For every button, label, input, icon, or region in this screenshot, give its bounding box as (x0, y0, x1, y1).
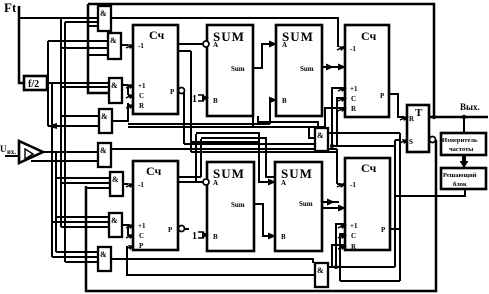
wire D5 input 2 (31, 160, 98, 162)
and-gate D6 (110, 172, 123, 196)
svg-text:B: B (282, 97, 287, 105)
svg-text:P: P (381, 226, 386, 234)
svg-text:U: U (0, 144, 7, 154)
wire SUM4 to CT4 line 2 (322, 207, 339, 209)
svg-text:P: P (170, 88, 175, 96)
wire CT3 P output stub (184, 228, 189, 230)
wire D4 input 2 (48, 125, 99, 127)
wire CT2 +1 feed from gate cluster (332, 88, 345, 146)
SUM3 A inversion circle (203, 179, 209, 185)
pin arrow CT4 R (338, 245, 346, 249)
junction dot D10 (334, 265, 338, 269)
svg-text:Сч: Сч (146, 164, 162, 178)
wire CT1 P net down (183, 92, 185, 144)
SUM1 A inversion circle (203, 41, 209, 47)
wire D8 input 1 (56, 251, 98, 253)
pin arrow CT1 C (126, 94, 134, 98)
wire middle long line y127 (128, 126, 325, 128)
wire band line y142 to CT2 R (191, 141, 259, 143)
wire Ft vertical to f/2 (19, 6, 24, 83)
svg-text:+1: +1 (138, 222, 146, 230)
wire D7 input 3 (61, 226, 109, 228)
wire D9 out to S stub (395, 139, 401, 141)
svg-text:Sum: Sum (231, 201, 245, 209)
wire bus V52 (51, 82, 53, 257)
counter CT1 (133, 25, 178, 114)
svg-text:Р: Р (168, 226, 173, 234)
wire D10 output (328, 266, 395, 268)
pin arrow CT3 -1 (126, 183, 134, 187)
wire bus V61 (60, 18, 62, 227)
pin arrow CT4 +1 (338, 224, 346, 228)
svg-text:-1: -1 (138, 42, 144, 50)
svg-text:Измеритель: Измеритель (442, 137, 478, 144)
wire D4 input 1 (61, 115, 99, 117)
wire CT2 P to T R (389, 94, 404, 117)
wire f/2 output to gate D3 (47, 82, 109, 84)
pin arrow CT1 R (126, 104, 134, 108)
wire right net V395 (394, 140, 396, 267)
svg-text:C: C (139, 232, 144, 240)
wire gate D9 left jog (309, 127, 316, 138)
pin arrow CT3 +1 (126, 224, 134, 228)
wire decision output (395, 189, 465, 196)
wire under SUM1 to gate D9 top entry (258, 116, 318, 127)
counter CT3 (133, 161, 178, 250)
wire SUM4 A feed staircase 2 (201, 138, 276, 177)
and-gate D4 (99, 109, 112, 133)
wire band line y147 to gate D9 (184, 143, 316, 145)
svg-text:Сч: Сч (361, 29, 377, 43)
wire D7 input 1 (56, 216, 109, 218)
svg-text:C: C (139, 92, 144, 100)
svg-text:блок: блок (453, 181, 467, 188)
svg-text:T: T (415, 107, 423, 119)
wire bus V56 (55, 152, 57, 252)
and-gate D8 (98, 247, 111, 271)
wire T Q output (429, 116, 488, 119)
wire stub up to CT3 R (126, 246, 128, 259)
adder SUM4 (275, 162, 322, 251)
svg-text:-1: -1 (138, 181, 144, 189)
wire D1 input 2 (65, 21, 98, 23)
svg-text:-1: -1 (350, 181, 356, 189)
adder SUM2 (276, 25, 322, 116)
and-gate D3 (109, 78, 122, 103)
CT3 P output circle (179, 226, 185, 232)
counter CT4 (345, 158, 390, 250)
adder SUM3 (207, 162, 254, 251)
svg-text:B: B (213, 97, 218, 105)
wire D2 input 1 (48, 40, 108, 42)
svg-text:&: & (112, 175, 119, 184)
pin arrow CT2 C (338, 97, 346, 101)
wire CT1 output to SUM1 A (178, 43, 203, 45)
wire D7 output branch to CT3 plus1 and C (122, 225, 129, 235)
svg-text:S: S (409, 138, 413, 146)
amplifier (Schmitt trigger) (19, 141, 43, 163)
wire SUM4 A feed staircase 1 (196, 133, 269, 182)
svg-text:&: & (101, 112, 108, 121)
wire D8 input 2 (52, 256, 98, 258)
wire CT4 R feed (332, 245, 345, 267)
wire CT4 C feed (340, 234, 345, 281)
and-gate D5 (98, 143, 111, 167)
svg-text:Sum: Sum (300, 65, 314, 73)
wire D6 input 2 (61, 182, 110, 184)
svg-text:вх.: вх. (7, 148, 16, 156)
svg-text:P: P (380, 92, 385, 100)
svg-text:Вых.: Вых. (460, 102, 480, 112)
wire input to amplifier (5, 155, 19, 157)
wire down to frequency meter (463, 117, 465, 132)
and-gate D1 (98, 6, 111, 31)
T inverted output circle (430, 137, 436, 143)
svg-text:&: & (100, 250, 107, 259)
wire D6 input 1 (56, 177, 110, 179)
svg-text:1: 1 (192, 231, 197, 242)
svg-text:&: & (317, 131, 324, 140)
wire band line y151 to CT4 minus1 (191, 151, 337, 153)
pin arrow CT1 +1 (126, 84, 134, 88)
svg-text:-1: -1 (350, 45, 356, 53)
wire middle long line y124 to SUM2 B (128, 123, 270, 125)
divider f/2 (24, 76, 47, 90)
svg-text:&: & (100, 146, 107, 155)
pin arrow CT2 -1 (337, 46, 345, 50)
wire D7 input 2 (52, 221, 109, 223)
wire T inverted output to feedback vertical (435, 140, 437, 141)
wire SUM2 Sum to CT2 (322, 66, 339, 68)
wire CT4 +1 feed (336, 224, 345, 267)
svg-text:A: A (213, 41, 218, 49)
wire SUM3 Sum to SUM4 B (254, 204, 269, 236)
svg-text:Sum: Sum (231, 65, 245, 73)
wire D8 output long line to gate D10 (111, 259, 313, 263)
wire amplifier output to gate D5 (43, 151, 98, 153)
svg-text:A: A (281, 179, 286, 187)
svg-text:Сч: Сч (361, 161, 377, 175)
wire D1 output long line to CT2 minus1 (111, 18, 338, 47)
wire Ft branch to gate D1 (19, 17, 98, 19)
svg-text:частоты: частоты (449, 146, 473, 153)
wire D4 output to CT1 R and middle band (112, 104, 129, 121)
wire CT4 P stub (390, 228, 400, 230)
svg-text:+1: +1 (350, 222, 358, 230)
wire D2 input 3 (88, 54, 108, 56)
wire D9 output long line (328, 132, 400, 134)
svg-text:Р: Р (139, 242, 144, 250)
feedback frame upper-left vertical (88, 4, 109, 93)
svg-text:C: C (351, 95, 356, 103)
wire arrowhead on V48 (47, 123, 57, 129)
pin arrow CT3 C (126, 234, 134, 238)
wire stub up to SUM1 bottom (252, 116, 254, 127)
svg-text:C: C (351, 232, 356, 240)
svg-text:&: & (111, 216, 118, 225)
wire D1 input 3 (88, 25, 98, 27)
wire SUM4 Sum to CT4 line 1 (322, 201, 339, 203)
wire bus V48 (47, 41, 49, 126)
pin arrow CT4 -1 (337, 183, 345, 187)
wire bus V65 (64, 22, 66, 262)
wire D2 output to CT1 minus1 (121, 44, 128, 46)
wire D8 input 3 (65, 261, 98, 263)
wire V337 down to CT4 minus1 (336, 149, 338, 184)
pin arrow CT3 R (126, 245, 134, 249)
junction dot meter drop (462, 115, 466, 119)
svg-text:+1: +1 (350, 85, 358, 93)
and-gate D2 (108, 33, 121, 59)
junction dot gate cluster (330, 144, 334, 148)
svg-text:&: & (111, 81, 118, 90)
and-gate D10 bottom right (315, 263, 328, 287)
trigger T (407, 105, 429, 152)
svg-text:B: B (281, 233, 286, 241)
wire D6 output to CT3 minus1 (123, 183, 128, 185)
svg-text:Решающий: Решающий (443, 172, 477, 179)
wire CT2 R feed (325, 108, 345, 127)
svg-text:&: & (110, 36, 117, 45)
pin arrow CT4 C (338, 234, 346, 238)
wire second band line right (332, 145, 395, 147)
wire bottom right collector (340, 280, 400, 282)
wire D6 input 3 from lower frame (86, 187, 110, 189)
svg-text:1: 1 (192, 94, 197, 105)
svg-text:&: & (317, 266, 324, 275)
svg-text:A: A (213, 179, 218, 187)
adder SUM1 (207, 25, 253, 116)
junction dot frame to out (432, 115, 436, 119)
pin arrow CT2 R (338, 107, 346, 111)
pin arrow CT2 +1 (338, 87, 346, 91)
svg-text:f/2: f/2 (28, 79, 39, 90)
feedback frame top (88, 4, 434, 117)
block decision (441, 168, 486, 189)
wire bottom long line y275 (127, 259, 315, 275)
wire SUM1 Sum to SUM2 A (253, 44, 270, 68)
svg-text:&: & (100, 9, 107, 18)
pin arrow CT1 -1 (126, 44, 134, 48)
svg-text:Сч: Сч (149, 28, 165, 42)
thick arrow between blocks (462, 155, 466, 161)
wire CT2 C feed (337, 98, 345, 146)
pin arrow T R (400, 116, 408, 120)
counter CT2 (345, 25, 389, 117)
wire D5 output long line (111, 148, 337, 150)
CT1 P output circle (179, 88, 185, 94)
wire D3 output branch to CT1 plus1 and C (122, 85, 129, 95)
wire right net V400 (399, 133, 401, 281)
and-gate D9 top right (315, 128, 328, 151)
wire SUM2 B feed from band (269, 100, 271, 124)
wire staircase leg 2 (200, 139, 202, 177)
wire CT1 output 2 down long (178, 50, 191, 52)
svg-text:+1: +1 (138, 82, 146, 90)
svg-text:A: A (282, 41, 287, 49)
feedback frame lower-left vertical (86, 141, 436, 291)
wire D2 input 2 (61, 47, 108, 49)
svg-text:Ft: Ft (4, 0, 17, 15)
and-gate D7 (109, 213, 122, 237)
wire D3 input 2 (61, 86, 109, 88)
svg-text:Sum: Sum (299, 200, 313, 208)
svg-text:B: B (213, 233, 218, 241)
wire staircase leg to SUM3 A (195, 134, 197, 182)
block frequency meter (441, 133, 486, 155)
